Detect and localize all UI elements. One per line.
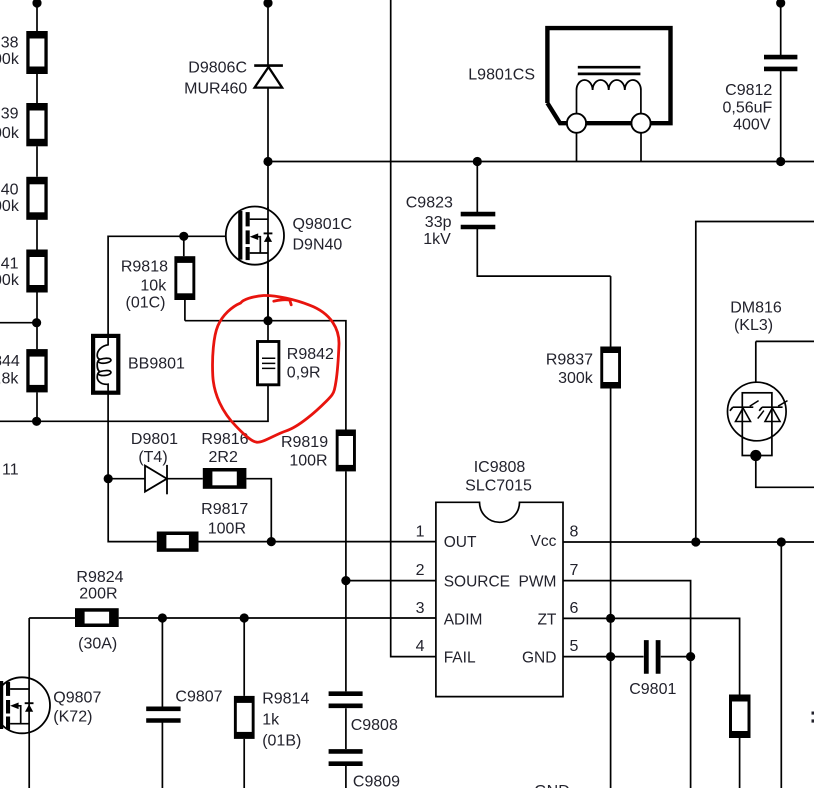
svg-text:00k: 00k [0, 51, 20, 68]
svg-text:R9842: R9842 [287, 346, 334, 363]
svg-text:C9812: C9812 [725, 82, 772, 99]
svg-text:C9801: C9801 [629, 681, 676, 698]
svg-text:R9837: R9837 [546, 351, 593, 368]
svg-text:Q9807: Q9807 [53, 690, 101, 707]
wire L9801CS terminal leads [577, 133, 642, 162]
svg-text:Vcc: Vcc [531, 533, 557, 550]
svg-text:(T4): (T4) [138, 449, 167, 466]
wire node line y=320.7 to R9819 [185, 321, 346, 430]
svg-text:(01C): (01C) [125, 294, 165, 311]
junction chain tap [32, 318, 41, 327]
junction ZT tap [606, 614, 615, 623]
annotation red pen dash [274, 300, 291, 305]
right edge text fragments [812, 712, 814, 715]
op-amp IC9808 box [436, 502, 563, 696]
svg-text:ADIM: ADIM [444, 612, 483, 629]
resistor R9844 [26, 349, 47, 392]
svg-text:33p: 33p [425, 214, 452, 231]
wire left tap y=322.7 [0, 322, 37, 324]
wire C9812 leads [780, 0, 782, 162]
svg-text:0,56uF: 0,56uF [722, 100, 772, 117]
wire R9837 to ZT vertical x=610.6 [610, 276, 612, 788]
resistor R9818 [174, 256, 195, 300]
svg-text:R9818: R9818 [121, 258, 168, 275]
wire drain Q9801C [267, 162, 269, 220]
svg-text:C9823: C9823 [406, 195, 453, 212]
diac DM816 [728, 382, 788, 455]
svg-text:100R: 100R [289, 453, 327, 470]
svg-text:4: 4 [416, 638, 425, 655]
wire BB9801 bottom lead [107, 394, 109, 479]
transistor Q9801C mosfet [226, 207, 284, 321]
svg-text:D9801: D9801 [131, 431, 178, 448]
svg-text:D9806C: D9806C [188, 60, 247, 77]
wire DM816 top lead [756, 341, 814, 392]
wire R9819 bottom to C9808 C9809 chain x=345.9 [345, 471, 347, 788]
svg-text:3: 3 [416, 600, 425, 617]
svg-text:FAIL: FAIL [444, 649, 476, 666]
junction R9817 right [267, 537, 276, 546]
svg-text:300k: 300k [558, 370, 594, 387]
resistor R9814 [234, 696, 255, 739]
wire C9823 leads [477, 162, 610, 277]
junction top main [263, 0, 272, 8]
svg-text:C9807: C9807 [175, 689, 222, 706]
svg-text:1k: 1k [262, 712, 280, 729]
wire PWM net to C9801 right [563, 581, 691, 788]
wire Vcc row y=542 [563, 541, 814, 543]
svg-text:MUR460: MUR460 [184, 81, 247, 98]
wire Q9807 drain-source x=29.2 [28, 618, 30, 788]
svg-text:100R: 100R [208, 521, 246, 538]
junction C9812 bottom [776, 157, 785, 166]
junction Vcc right [777, 537, 786, 546]
resistor ZT unlabeled [729, 695, 751, 739]
junction pin2 R9819 [341, 576, 350, 585]
capacitor C9807 [146, 709, 180, 721]
wire D9801 row y=478.7 [108, 479, 271, 542]
svg-text:7: 7 [570, 562, 579, 579]
svg-text:0,9R: 0,9R [287, 365, 321, 382]
wire R9814 leads [243, 618, 245, 788]
junction HT bus at main [263, 157, 272, 166]
wire source Q9801C to R9842 node [267, 219, 269, 321]
svg-text:(K72): (K72) [53, 709, 92, 726]
svg-text:8: 8 [570, 523, 579, 540]
junction DM816 bottom [750, 450, 761, 461]
svg-text:839: 839 [0, 105, 19, 122]
junction R9842 top node [263, 316, 272, 325]
capacitor C9812 [764, 57, 797, 69]
svg-text:200R: 200R [79, 585, 117, 602]
svg-text:6: 6 [570, 600, 579, 617]
svg-text:R9814: R9814 [262, 691, 309, 708]
wire left divider chain x=37 [36, 0, 38, 421]
svg-text:Q9801C: Q9801C [293, 216, 353, 233]
wire R9842 top lead [267, 321, 269, 342]
svg-text:D9N40: D9N40 [293, 237, 343, 254]
svg-text:(KL3): (KL3) [734, 317, 773, 334]
junction top C9812 [776, 0, 785, 8]
wire main HT line x=268 top [267, 0, 269, 162]
wire ADIM row y=618 [29, 617, 436, 619]
junction Vcc DM frame [691, 537, 700, 546]
resistor R9824 [75, 608, 119, 627]
junction R9814 tap [240, 613, 249, 622]
wire SOURCE pin2 row [346, 580, 436, 582]
diode D9801 [145, 465, 167, 494]
svg-text:C9808: C9808 [351, 717, 398, 734]
resistor R9839 [26, 103, 47, 146]
svg-text:1: 1 [416, 523, 425, 540]
wire HT bus y=161.5 [268, 161, 814, 163]
svg-text:,8k: ,8k [0, 370, 19, 387]
svg-text:R9824: R9824 [76, 569, 123, 586]
wire FAIL long vertical x=390.7 [391, 0, 436, 657]
wire DM816 frame left-top [696, 222, 814, 543]
wire bottom-left bus y=421.3 to R9842 [0, 384, 268, 421]
svg-text:838: 838 [0, 35, 19, 52]
resistor R9817 [157, 532, 199, 552]
svg-text:10k: 10k [140, 277, 167, 294]
capacitor C9823 [461, 214, 496, 227]
wire ZT net to resistor [563, 618, 740, 788]
junction gate R9818 [179, 232, 188, 241]
svg-text:C9809: C9809 [353, 774, 400, 788]
svg-text:L9801CS: L9801CS [468, 67, 535, 84]
resistor R9819 [336, 430, 356, 472]
wire GND pin5 net with C9801 [563, 656, 691, 658]
capacitor C9809 [329, 751, 363, 763]
svg-text:400V: 400V [733, 117, 771, 134]
junction C9801 right [686, 652, 695, 661]
resistor R9842 fusible [258, 342, 279, 385]
svg-text:BB9801: BB9801 [128, 356, 185, 373]
svg-text:2R2: 2R2 [209, 449, 238, 466]
svg-text:IC9808: IC9808 [474, 459, 526, 476]
diode D9806C [254, 66, 283, 88]
wire R9818 top lead [183, 236, 185, 256]
svg-text:840: 840 [0, 182, 19, 199]
wire right vertical x=781.3 [780, 542, 782, 788]
inductor BB9801 [93, 335, 118, 394]
svg-text:R9819: R9819 [281, 434, 328, 451]
svg-text:5: 5 [570, 638, 579, 655]
svg-text:841: 841 [0, 256, 19, 273]
capacitor C9801 [646, 640, 658, 674]
junction C9823 tap [473, 157, 482, 166]
capacitor C9808 [329, 694, 363, 706]
junction C9807 tap [158, 613, 167, 622]
annotation red circle around R9842 [213, 295, 339, 442]
svg-text:OUT: OUT [444, 534, 477, 551]
svg-text:844: 844 [0, 353, 20, 370]
svg-text:PWM: PWM [519, 573, 557, 590]
resistor R9837 [600, 347, 621, 389]
svg-text:2: 2 [416, 562, 425, 579]
svg-text:ZT: ZT [537, 612, 556, 629]
svg-text:GND: GND [522, 649, 556, 666]
svg-text:GND: GND [534, 783, 570, 788]
svg-text:11: 11 [2, 462, 19, 479]
junction top chain [32, 0, 41, 8]
svg-text:1kV: 1kV [423, 231, 451, 248]
wire DM816 bottom lead [756, 456, 814, 488]
svg-text:(01B): (01B) [262, 733, 301, 750]
svg-text:00k: 00k [0, 125, 20, 142]
resistor R9838 [26, 31, 47, 74]
junction D9801 left [104, 474, 113, 483]
transformer L9801CS [547, 28, 670, 133]
svg-text:00k: 00k [0, 272, 20, 289]
resistor R9840 [26, 177, 47, 220]
svg-text:SOURCE: SOURCE [444, 573, 510, 590]
transistor Q9807 mosfet [0, 677, 50, 733]
wire gate net Q9801C to BB9801 [108, 236, 238, 334]
svg-text:(30A): (30A) [78, 635, 117, 652]
junction chain bottom [32, 417, 41, 426]
wire R9818 bottom lead to node [184, 300, 186, 321]
svg-text:00k: 00k [0, 198, 20, 215]
wire R9817 row y=541.6 and OUT line [108, 479, 436, 542]
resistor R9816 [203, 468, 247, 489]
svg-text:R9817: R9817 [201, 501, 248, 518]
resistor R9841 [26, 250, 47, 293]
junction GND pin5 tap [606, 652, 615, 661]
svg-text:SLC7015: SLC7015 [465, 478, 532, 495]
wire C9807 leads [161, 618, 163, 788]
svg-text:DM816: DM816 [730, 299, 782, 316]
